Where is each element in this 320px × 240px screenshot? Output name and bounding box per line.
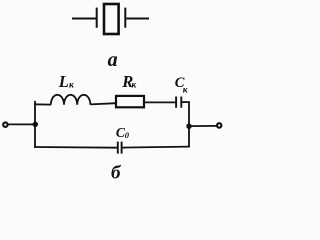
svg-text:L: L	[58, 72, 69, 91]
svg-text:к: к	[131, 81, 137, 91]
svg-text:к: к	[183, 85, 189, 95]
svg-text:б: б	[111, 162, 122, 183]
svg-text:к: к	[69, 81, 75, 91]
svg-text:0: 0	[125, 130, 130, 140]
svg-text:а: а	[108, 49, 118, 71]
